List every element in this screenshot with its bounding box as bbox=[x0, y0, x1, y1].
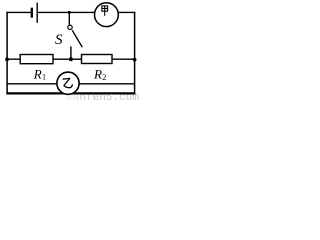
node junction switch bottom bbox=[69, 57, 73, 61]
switch S blade bbox=[72, 30, 82, 47]
wire meter-yi rail bbox=[7, 83, 135, 85]
label R2 bbox=[93, 66, 106, 82]
svg-text:R: R bbox=[33, 66, 42, 81]
svg-text:1: 1 bbox=[42, 73, 46, 82]
wire switch upper lead bbox=[68, 12, 70, 24]
svg-text:2: 2 bbox=[102, 73, 106, 82]
svg-text:R: R bbox=[93, 66, 102, 81]
wire bottom rail bbox=[6, 92, 135, 94]
svg-text:S: S bbox=[55, 32, 63, 48]
node junction left middle bbox=[5, 58, 9, 62]
wire middle rail bbox=[7, 58, 135, 60]
battery cell bbox=[32, 3, 37, 23]
switch S pivot bbox=[68, 25, 72, 29]
switch S lower contact lead bbox=[70, 46, 72, 59]
node junction right middle bbox=[133, 58, 137, 62]
meter jia (甲) circle bbox=[95, 3, 119, 27]
wire top rail right of battery bbox=[38, 11, 135, 13]
meter yi (乙) glyph bbox=[63, 78, 72, 87]
meter jia (甲) glyph bbox=[102, 6, 108, 16]
resistor R1 bbox=[20, 55, 53, 64]
resistor R2 bbox=[82, 55, 113, 64]
wire right vertical bbox=[134, 12, 136, 95]
wire top rail bbox=[6, 11, 30, 13]
node junction top of switch branch bbox=[68, 11, 71, 14]
label R1 bbox=[33, 66, 46, 81]
wire left vertical bbox=[6, 12, 8, 95]
meter yi (乙) circle bbox=[57, 72, 79, 94]
